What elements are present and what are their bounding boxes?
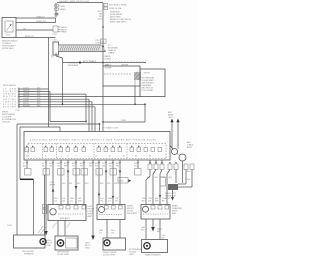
bus corner right drop bbox=[103, 103, 146, 122]
radio unit box bbox=[24, 132, 170, 161]
fuse panel note block bbox=[110, 12, 132, 24]
wire color label left of trunk bbox=[98, 11, 103, 21]
svg-text:695: 695 bbox=[107, 183, 111, 185]
svg-text:(STRG WHL): (STRG WHL) bbox=[2, 48, 14, 50]
svg-text:YE: YE bbox=[134, 166, 137, 168]
svg-text:BK/PK: BK/PK bbox=[50, 185, 57, 187]
coax shield hatch bbox=[59, 45, 105, 51]
svg-text:SPKR FEEDS: SPKR FEEDS bbox=[3, 85, 16, 87]
svg-text:BLK/WH: BLK/WH bbox=[3, 107, 17, 109]
svg-text:ELECTRONIC AM/FM STEREO RADIO: ELECTRONIC AM/FM STEREO RADIO WITH CASSE… bbox=[30, 139, 157, 142]
ladder wire 7 (long bus) bbox=[3, 103, 145, 106]
svg-text:TO RADIO C280: TO RADIO C280 bbox=[103, 127, 119, 130]
svg-text:693: 693 bbox=[85, 183, 89, 185]
wire row y124 bbox=[17, 123, 119, 235]
svg-text:GY: GY bbox=[72, 166, 76, 168]
trunk side labels bbox=[105, 55, 112, 70]
svg-text:GRD: GRD bbox=[47, 245, 52, 247]
svg-text:5: 5 bbox=[61, 156, 63, 158]
ladder wire 6 bbox=[3, 100, 92, 103]
svg-text:C903: C903 bbox=[119, 181, 125, 183]
svg-text:VOL: VOL bbox=[6, 35, 11, 37]
svg-text:RADIO BATTERY: RADIO BATTERY bbox=[110, 21, 127, 24]
svg-text:AMP: AMP bbox=[88, 215, 93, 218]
svg-text:10: 10 bbox=[95, 156, 98, 158]
svg-text:DG: DG bbox=[95, 166, 98, 168]
ladder wire 1 bbox=[3, 88, 49, 91]
shield ground wire bbox=[63, 61, 146, 64]
ladder wire 3 bbox=[3, 93, 86, 96]
svg-text:696: 696 bbox=[114, 183, 118, 185]
svg-text:DB: DB bbox=[102, 166, 105, 168]
svg-text:HOT AT ALL TIMES: HOT AT ALL TIMES bbox=[109, 4, 127, 7]
svg-text:GRD: GRD bbox=[85, 248, 90, 250]
radio pin boxes row bbox=[25, 148, 162, 152]
svg-text:SPKR AMP: SPKR AMP bbox=[68, 64, 79, 67]
svg-text:6: 6 bbox=[68, 156, 70, 158]
amp2 caption bbox=[127, 206, 138, 216]
audio wire drop x92 bbox=[92, 102, 95, 132]
speaker4 caption bbox=[145, 254, 161, 256]
svg-text:YE: YE bbox=[115, 201, 118, 203]
svg-text:STRAP: STRAP bbox=[105, 67, 112, 70]
suppressor element (hatched) bbox=[134, 72, 141, 87]
svg-text:1: 1 bbox=[26, 156, 28, 158]
svg-text:FUSE: FUSE bbox=[60, 6, 66, 8]
inline connector boxes under radio bbox=[25, 169, 142, 176]
mid-run labels left column bbox=[62, 183, 118, 185]
svg-text:CABLE: CABLE bbox=[108, 52, 115, 55]
svg-text:CIRCUIT: CIRCUIT bbox=[2, 122, 11, 124]
svg-text:ASSY: ASSY bbox=[187, 146, 193, 149]
svg-text:694: 694 bbox=[100, 183, 104, 185]
note box right bbox=[140, 69, 165, 97]
svg-text:16: 16 bbox=[135, 156, 138, 158]
remote control caption bbox=[2, 40, 18, 51]
svg-text:NOTE:: NOTE: bbox=[144, 73, 151, 75]
svg-text:LB/BK 57: LB/BK 57 bbox=[36, 17, 45, 19]
amp3 speaker wire labels bbox=[141, 227, 165, 240]
svg-text:15A RADIO FEED CIRCUIT 1000: 15A RADIO FEED CIRCUIT 1000 bbox=[59, 0, 90, 3]
antenna leads down bbox=[172, 127, 178, 149]
svg-text:LG: LG bbox=[57, 166, 60, 168]
ground wire G1 bbox=[44, 231, 53, 247]
control data wire bbox=[16, 29, 53, 31]
svg-text:C510: C510 bbox=[7, 225, 13, 227]
speaker1 caption bbox=[22, 251, 35, 256]
wire labels under radio bbox=[23, 163, 138, 165]
amplifier 2 box (right front door) bbox=[97, 205, 125, 220]
svg-text:CHOKE: CHOKE bbox=[121, 65, 129, 67]
svg-text:57: 57 bbox=[51, 56, 54, 58]
speaker 1 box (left front) bbox=[14, 235, 47, 248]
speaker 2 box (left front door) bbox=[55, 236, 78, 250]
radio feed drop wire bbox=[51, 53, 79, 104]
label block mid with up arrow bbox=[50, 182, 57, 192]
speaker 3 box (right front door) bbox=[103, 238, 126, 250]
amp1 pin labels bbox=[54, 198, 82, 203]
svg-text:802: 802 bbox=[155, 177, 159, 179]
remote control switch box bbox=[2, 18, 16, 38]
svg-text:BK: BK bbox=[42, 166, 45, 168]
amp3 note bottom bbox=[129, 249, 142, 256]
speaker wires amp1 down bbox=[52, 221, 72, 236]
svg-text:AMP: AMP bbox=[172, 212, 177, 215]
svg-text:7: 7 bbox=[76, 156, 78, 158]
amp3 caption bbox=[172, 205, 182, 216]
svg-text:SPKR AMP: SPKR AMP bbox=[127, 212, 138, 215]
svg-text:PREM: PREM bbox=[61, 32, 67, 34]
svg-text:WH: WH bbox=[78, 201, 82, 203]
connector pins C251 bbox=[55, 3, 67, 18]
svg-text:18: 18 bbox=[149, 156, 152, 158]
svg-text:BK: BK bbox=[141, 230, 144, 232]
steering wheel control wire 1 bbox=[16, 17, 56, 23]
svg-text:BK 57 SHIELD: BK 57 SHIELD bbox=[83, 61, 97, 63]
svg-text:806: 806 bbox=[187, 179, 191, 181]
radio inner dashed frame bbox=[28, 144, 166, 159]
svg-text:C252: C252 bbox=[52, 34, 58, 36]
amp2 pin labels bbox=[100, 198, 119, 203]
connector C301 label bbox=[95, 40, 118, 55]
branch wire to speaker 1 mid bbox=[33, 179, 35, 235]
svg-text:BK: BK bbox=[162, 201, 165, 203]
antenna coax upper conductor bbox=[59, 45, 106, 52]
svg-text:OG: OG bbox=[49, 166, 53, 168]
svg-text:OG: OG bbox=[100, 201, 104, 203]
right side connector row bbox=[148, 162, 194, 169]
in-line fuse bbox=[101, 39, 107, 44]
svg-text:ASSY: ASSY bbox=[165, 197, 171, 200]
amplifier 1 box (left front door) bbox=[48, 205, 86, 221]
svg-text:3: 3 bbox=[45, 156, 47, 158]
svg-text:692: 692 bbox=[77, 183, 81, 185]
audio wire drop x86 bbox=[85, 94, 87, 122]
ground wire G2 bbox=[85, 231, 95, 250]
svg-text:LG: LG bbox=[108, 201, 111, 203]
speaker3 caption bbox=[103, 252, 117, 256]
radio to antenna jumper bbox=[170, 146, 173, 149]
heavy lower bus bbox=[20, 178, 34, 180]
speaker wires amp2 down bbox=[99, 220, 120, 239]
svg-text:15A: 15A bbox=[101, 41, 105, 44]
svg-text:801: 801 bbox=[147, 177, 151, 179]
speaker2 caption bbox=[57, 252, 70, 256]
svg-text:BK/WH: BK/WH bbox=[23, 105, 30, 107]
ladder wire 2 bbox=[3, 90, 50, 93]
misc small label left bbox=[7, 225, 13, 227]
svg-text:OG: OG bbox=[111, 233, 115, 235]
branch wire to speaker 1 right bbox=[38, 175, 47, 235]
wires below radio bbox=[27, 160, 138, 231]
svg-text:691: 691 bbox=[69, 183, 73, 185]
svg-text:LG: LG bbox=[99, 233, 102, 235]
svg-text:BK: BK bbox=[23, 166, 26, 168]
svg-text:690: 690 bbox=[62, 183, 66, 185]
junction of trunk and feed bbox=[102, 46, 104, 48]
amplifier 3 box (rear) bbox=[141, 205, 170, 220]
ladder header caption bbox=[3, 85, 16, 87]
right column run labels bbox=[147, 171, 191, 181]
svg-text:UNIT: UNIT bbox=[168, 117, 173, 119]
svg-text:RD: RD bbox=[116, 166, 119, 168]
svg-text:BK: BK bbox=[149, 201, 152, 203]
flow arrows on wires bbox=[67, 171, 162, 200]
ground wire G3 bbox=[151, 219, 163, 233]
antenna coax lower conductor bbox=[59, 51, 106, 53]
svg-text:BK: BK bbox=[142, 201, 145, 203]
svg-text:OG/LG: OG/LG bbox=[52, 222, 58, 229]
trunk drop into radio bbox=[102, 86, 104, 132]
svg-text:RADIO: RADIO bbox=[105, 64, 112, 67]
svg-text:C210: C210 bbox=[15, 110, 21, 112]
svg-text:SPEAKER: SPEAKER bbox=[24, 253, 34, 256]
speaker 4 box (rear) bbox=[142, 240, 168, 253]
amp3 pin labels bbox=[142, 198, 166, 203]
connector box under wire 84 bbox=[81, 169, 88, 176]
svg-text:LB: LB bbox=[109, 166, 112, 168]
svg-text:TN: TN bbox=[80, 166, 83, 168]
ladder caption block bbox=[2, 112, 16, 124]
svg-text:805: 805 bbox=[187, 171, 191, 173]
svg-text:14: 14 bbox=[123, 156, 126, 158]
svg-text:803: 803 bbox=[162, 177, 166, 179]
connector dot row under radio bbox=[26, 162, 162, 163]
wire gauge labels second row under radio bbox=[23, 166, 137, 168]
ladder wire 5 bbox=[3, 98, 89, 101]
svg-text:12: 12 bbox=[109, 156, 112, 158]
svg-text:WH: WH bbox=[155, 201, 159, 203]
label box with arrow bbox=[118, 178, 131, 184]
svg-text:1000: 1000 bbox=[98, 19, 103, 21]
noise suppressor enclosure bbox=[103, 64, 140, 86]
noise suppressor circles bbox=[172, 141, 195, 161]
svg-text:804: 804 bbox=[169, 177, 173, 179]
audio wire drop x89 bbox=[88, 99, 90, 131]
svg-text:BK/PK 57: BK/PK 57 bbox=[25, 36, 35, 38]
ladder stub connectors bbox=[18, 88, 19, 108]
wire row y127 bbox=[20, 127, 60, 179]
svg-text:NOISE: NOISE bbox=[105, 59, 112, 61]
down arrow marker on wire bbox=[75, 186, 78, 190]
svg-text:FUSE 10 15A: FUSE 10 15A bbox=[109, 7, 122, 10]
svg-text:PK: PK bbox=[89, 166, 92, 168]
ladder wire 8 bbox=[3, 105, 95, 108]
antenna base box bbox=[160, 177, 178, 201]
speaker wires amp3 down bbox=[146, 219, 160, 240]
svg-text:WH: WH bbox=[64, 166, 68, 168]
suppressor drop wire bbox=[134, 86, 136, 105]
svg-text:LB/WH: LB/WH bbox=[66, 222, 72, 229]
antenna base leads bbox=[176, 161, 192, 187]
connector block C252 bbox=[52, 26, 67, 36]
svg-text:OG: OG bbox=[62, 201, 66, 203]
radio connector box C1 bbox=[51, 40, 59, 59]
wire row y121 bbox=[50, 92, 86, 122]
ladder wire 4 bbox=[3, 95, 140, 98]
ground return wire from switch bbox=[16, 36, 56, 127]
radio pin dots bbox=[26, 146, 139, 147]
svg-text:LG: LG bbox=[54, 201, 57, 203]
amp1 caption bbox=[88, 206, 96, 218]
steering wheel control wire 2 bbox=[16, 21, 56, 23]
svg-text:CSS: CSS bbox=[53, 40, 58, 42]
svg-text:AMP ASSY: AMP ASSY bbox=[60, 217, 71, 220]
svg-text:FOR DETAIL: FOR DETAIL bbox=[142, 89, 155, 92]
svg-text:OG/BK 511: OG/BK 511 bbox=[36, 21, 47, 23]
svg-text:PANEL: PANEL bbox=[60, 8, 67, 11]
right side wires from radio bbox=[146, 160, 170, 205]
connector label under ladder bbox=[15, 110, 21, 112]
radio pin labels under row bbox=[26, 156, 152, 158]
svg-text:LG: LG bbox=[70, 201, 73, 203]
power trunk wire bbox=[102, 3, 104, 67]
top bus wire from fuse panel connector to power trunk bbox=[57, 0, 103, 3]
fuse pins top bbox=[104, 4, 127, 10]
antenna symbol bbox=[168, 111, 180, 127]
